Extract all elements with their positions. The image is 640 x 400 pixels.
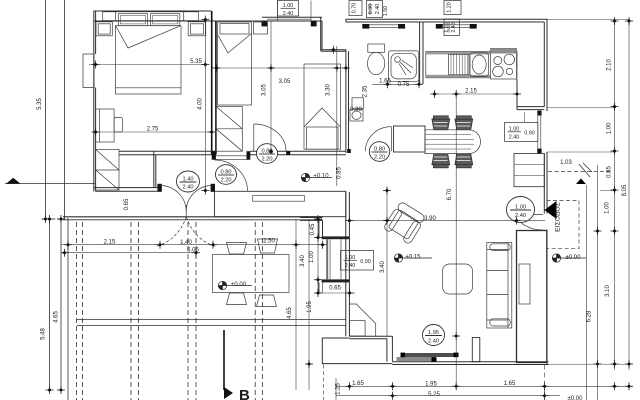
french door swing projection dashed (156, 217, 186, 247)
east kitchen window glazing (537, 113, 539, 150)
french door arc right (186, 186, 212, 212)
washbasin (350, 110, 363, 122)
terrace table (213, 255, 290, 293)
svg-text:1.03: 1.03 (560, 160, 572, 166)
bed1 body (115, 26, 181, 94)
svg-text:±0.15: ±0.15 (406, 254, 422, 260)
sliding door right jamb column (472, 338, 480, 362)
svg-text:3.10: 3.10 (605, 285, 611, 297)
svg-text:5.48: 5.48 (41, 328, 47, 340)
svg-text:0.45: 0.45 (310, 223, 316, 235)
svg-text:6.70: 6.70 (447, 188, 453, 200)
svg-text:2.50: 2.50 (263, 239, 275, 245)
svg-text:1.00: 1.00 (515, 205, 526, 211)
dim h kitchen 2.15 (435, 93, 518, 95)
svg-text:2.40: 2.40 (428, 339, 439, 345)
svg-text:3.90: 3.90 (424, 216, 436, 222)
svg-text:1.65: 1.65 (379, 79, 391, 85)
bed2R fold (304, 108, 341, 127)
shower tray (389, 51, 419, 81)
dim v 1.25 (335, 378, 337, 400)
west wing south wall (french door wall) (94, 187, 158, 189)
window bottom jamb wall stub (322, 279, 350, 282)
fireplace angled wall (350, 304, 376, 336)
north window jambs bathroom (362, 24, 369, 29)
svg-text:0.70: 0.70 (352, 3, 358, 14)
svg-text:1.65: 1.65 (504, 381, 516, 387)
toilet tank (368, 44, 385, 52)
bed2 mid nightstand (254, 22, 268, 34)
svg-text:8.05: 8.05 (622, 184, 628, 196)
wall below west window (318, 282, 320, 293)
level marker ±0.15 (394, 254, 432, 262)
french door center post (185, 205, 187, 217)
dim v 4.00 (204, 20, 206, 193)
boxed label 1.20 kitchen rot (444, 1, 461, 15)
wardrobe bedroom1 hatched (96, 150, 119, 191)
dining sideboard rect (394, 126, 426, 152)
svg-text:2.40: 2.40 (182, 185, 193, 191)
hall west wall piece over window (300, 217, 323, 219)
level marker ±0.00 entrance (552, 254, 586, 262)
bed2R pillow (307, 127, 339, 149)
dim h 3.90 (349, 220, 545, 222)
boundary line left (64, 0, 66, 219)
svg-text:0.90: 0.90 (368, 4, 374, 15)
sofa armrest bottom (490, 319, 511, 326)
desk chair (114, 118, 122, 133)
dish drainer hatch (449, 54, 470, 74)
desk bedroom1 (96, 109, 115, 142)
svg-text:2.75: 2.75 (147, 127, 159, 133)
boxed label west window 1.00/2.40 0.90 (341, 251, 374, 271)
east kitchen window jambs (537, 111, 541, 116)
wall bedroom1/bedroom2 double (211, 11, 213, 155)
svg-text:1.00: 1.00 (605, 202, 611, 214)
svg-text:4.65: 4.65 (287, 307, 293, 319)
armchair rotated (383, 201, 427, 245)
svg-text:0.90: 0.90 (524, 130, 535, 136)
entrance walk dashes (548, 171, 610, 173)
extension line bottom right (549, 363, 631, 365)
svg-text:1.25: 1.25 (336, 383, 342, 395)
bedroom1 west window box (83, 54, 94, 88)
dim h bottom 5.25 (336, 395, 560, 397)
extension line window top (547, 107, 616, 109)
living west wall (345, 192, 347, 336)
fireplace square (350, 321, 366, 337)
dim v 6.28 (585, 185, 587, 400)
svg-text:2.40: 2.40 (283, 11, 294, 17)
pergola dashed pair 2 (130, 222, 132, 400)
svg-text:B: B (239, 387, 250, 400)
svg-text:5.25: 5.25 (428, 392, 440, 398)
dim v 0.45 1.00 (317, 219, 319, 293)
svg-text:1.00: 1.00 (444, 22, 450, 32)
kitchen counter outline (426, 51, 517, 77)
extension line window bottom (547, 151, 616, 153)
bathroom door leaf+arc (390, 127, 392, 152)
terrace chairs (227, 243, 247, 255)
svg-text:5.35: 5.35 (37, 98, 43, 110)
svg-text:1.95: 1.95 (425, 382, 437, 388)
french door jambs (157, 184, 161, 192)
dim h 0.65 hall (318, 292, 355, 294)
ticks left col (42, 215, 50, 223)
shower spray lines (400, 62, 411, 73)
pergola dashed pair 1 (76, 222, 78, 400)
svg-text:0.90: 0.90 (360, 259, 371, 265)
extension line top right (547, 19, 630, 21)
extension line top bedroom2 window (310, 1, 312, 22)
bath+kitchen north wall (346, 18, 547, 20)
bed1 fold (116, 26, 181, 48)
dining chairs hatched (432, 116, 473, 168)
terrace west edge (67, 218, 69, 400)
svg-text:2.40: 2.40 (451, 22, 457, 32)
dim h bedroom1 5.35 (89, 64, 205, 66)
dim v bedroom2 mid (270, 21, 272, 151)
dim v right col 1 (614, 19, 616, 370)
dashed sw step edge (323, 365, 325, 400)
bed2R body (304, 64, 341, 149)
coffee table (443, 264, 473, 294)
boxed label 1.00/2.40 kitchen rot (444, 19, 460, 36)
svg-text:3.05: 3.05 (262, 84, 268, 96)
svg-text:4.00: 4.00 (198, 98, 204, 110)
nightstand east (188, 22, 206, 36)
svg-text:0.85: 0.85 (337, 167, 343, 179)
bedroom1 door arc (215, 160, 248, 191)
svg-text:3.05: 3.05 (279, 79, 291, 85)
svg-text:2.35: 2.35 (363, 85, 369, 97)
svg-text:±0.00: ±0.00 (568, 396, 584, 400)
svg-text:3.40: 3.40 (380, 261, 386, 273)
svg-text:2.15: 2.15 (465, 89, 477, 95)
bathroom north window glazing (369, 24, 398, 26)
dim h terrace 2.15 1.40 2.50 (61, 244, 323, 246)
svg-text:0.80: 0.80 (220, 170, 231, 176)
svg-text:2.10: 2.10 (607, 59, 613, 71)
window top jamb wall stub (322, 236, 350, 239)
entrance canopy dashed (547, 201, 580, 249)
pergola dashed pair 3 (187, 222, 189, 400)
dim v 3.40 right (386, 188, 388, 336)
bed2L body (218, 22, 252, 105)
bedroom1 north wall (94, 10, 212, 12)
dim v 6.70 (455, 94, 457, 386)
svg-text:1.50: 1.50 (383, 6, 389, 17)
svg-text:1.40: 1.40 (182, 177, 193, 183)
washbasin shelf small (352, 98, 364, 109)
bedroom2 door leaf+arc (253, 124, 255, 151)
boxed label 0.70 bath rot (349, 1, 362, 16)
svg-text:1.00: 1.00 (345, 255, 356, 261)
svg-text:4.65: 4.65 (54, 311, 60, 323)
sofa armrest top (490, 244, 511, 251)
hall band inner shelf (253, 196, 305, 202)
dim h bottom 1.65 1.95 1.65 (336, 385, 629, 387)
entrance arrow triangle (545, 201, 557, 219)
svg-text:1.65: 1.65 (352, 381, 364, 387)
notch step wall (320, 17, 322, 51)
svg-text:1.00: 1.00 (283, 3, 294, 9)
dim v right col 2 (628, 19, 630, 370)
svg-text:6.28: 6.28 (587, 310, 593, 322)
svg-text:1.40: 1.40 (180, 240, 192, 246)
dim v 3.40 left (308, 219, 310, 390)
sofa backrest (507, 243, 509, 329)
datum line west with arrow (5, 183, 95, 185)
sofa body (487, 243, 512, 329)
wardrobe bedroom2 hatched (216, 107, 242, 152)
svg-text:2.40: 2.40 (345, 263, 356, 269)
svg-text:3.30: 3.30 (326, 84, 332, 96)
living east wall band / shelf unit (517, 231, 547, 363)
bedroom1 L corner wall (155, 155, 157, 188)
kitchen sink (470, 53, 489, 77)
shower drain (395, 57, 401, 63)
bedroom1 door threshold (215, 155, 249, 157)
svg-text:ΕΙΣΟΔΟΣ: ΕΙΣΟΔΟΣ (555, 202, 562, 232)
east wall between window and entrance (546, 152, 548, 214)
dim line left 5.35/5.48 (45, 0, 47, 219)
svg-text:+0.00: +0.00 (231, 282, 247, 288)
hall west window (326, 239, 328, 279)
level marker +0.10 (301, 173, 332, 181)
dim h bedroom2 3.05 (217, 67, 346, 69)
bedroom1 west wall (93, 11, 95, 192)
dim h terrace 6.06 (61, 252, 196, 254)
tv in niche (519, 264, 530, 304)
svg-text:0.75: 0.75 (398, 82, 410, 88)
toilet bowl (368, 52, 385, 74)
hall cupboard by entrance (514, 154, 544, 187)
svg-text:0.65: 0.65 (124, 198, 130, 210)
bedroom south wall (119, 150, 216, 152)
terrace north wall line (63, 216, 323, 218)
window inner sill line (340, 239, 342, 279)
boxed label 0.90/2.40 1.50 bath rot (367, 1, 383, 18)
boxed label east window 1.00/2.40 0.90 (505, 122, 538, 141)
dim h bath 1.65 0.75 (372, 83, 420, 85)
svg-text:6.06: 6.06 (187, 248, 199, 254)
counter top gray band (426, 51, 517, 54)
jambs black bedroom south doors (212, 151, 216, 160)
bedroom2 north window (267, 18, 311, 20)
svg-text:0.80: 0.80 (374, 147, 385, 153)
svg-text:+0.10: +0.10 (313, 173, 329, 179)
bed2L fold (218, 34, 252, 54)
svg-text:2.20: 2.20 (374, 155, 385, 161)
bath/kitchen separating wall (419, 22, 421, 84)
dim line left 5.48 lower (49, 219, 51, 391)
dim h desk 2.75 (96, 131, 212, 133)
svg-text:2.40: 2.40 (509, 135, 520, 141)
terrace south step double line (77, 319, 346, 321)
living south wall (392, 361, 548, 363)
svg-text:2.15: 2.15 (104, 239, 116, 245)
bathroom west wall (345, 50, 347, 153)
french door arc left (160, 186, 186, 212)
svg-text:3.40: 3.40 (300, 255, 306, 267)
sliding door panels (403, 353, 458, 357)
dim line left 4.65 (60, 218, 62, 391)
boxed label bedroom2 window (278, 1, 299, 17)
pergola dashed pair 4 (254, 222, 256, 400)
section B line (223, 330, 225, 390)
svg-text:5.35: 5.35 (190, 59, 202, 65)
svg-text:2.40: 2.40 (515, 213, 526, 219)
bed2L pillow (220, 24, 249, 35)
bed1 pillows (118, 14, 147, 26)
entrance door leaf+arc (518, 214, 544, 216)
dim v bedroom2 right (336, 46, 338, 186)
svg-text:1.95: 1.95 (307, 301, 313, 313)
label circle bedroom1 door (177, 142, 535, 346)
sw patio step (322, 338, 392, 364)
svg-text:0.80: 0.80 (261, 149, 272, 155)
svg-text:1.00: 1.00 (607, 122, 613, 134)
north window jambs kitchen (436, 24, 443, 29)
level marker +0.00 terrace (218, 281, 252, 289)
svg-text:0.65: 0.65 (329, 286, 341, 292)
dim v right col inner (597, 165, 599, 400)
svg-text:2.20: 2.20 (220, 178, 231, 184)
dining table (425, 130, 481, 154)
svg-text:2.40: 2.40 (375, 4, 381, 15)
svg-text:2.20: 2.20 (261, 157, 272, 163)
nightstand west (96, 22, 112, 36)
counter front gray band (426, 75, 517, 78)
kitchen north window glazing (443, 24, 470, 26)
svg-text:1.00: 1.00 (509, 127, 520, 133)
svg-text:0.85: 0.85 (607, 166, 613, 178)
east wall below entrance (546, 230, 548, 365)
svg-text:0.30: 0.30 (350, 107, 362, 113)
extension line entrance top (600, 190, 616, 192)
bed1 headboard shelf (103, 12, 199, 21)
north window jambs bedroom2 (262, 21, 268, 26)
hall south band (215, 191, 346, 216)
svg-text:1.95: 1.95 (428, 330, 439, 336)
bedroom2 north wall (216, 20, 322, 22)
svg-text:1.00: 1.00 (309, 251, 315, 263)
stove (491, 49, 517, 80)
dim v terrace right (295, 219, 297, 390)
building east wall top (546, 19, 548, 111)
svg-text:1.20: 1.20 (447, 2, 453, 13)
kitchen east niche step (516, 79, 518, 110)
living sw corner step (349, 335, 392, 337)
sofa cushions (487, 249, 508, 251)
dashed property line bottom right (544, 365, 546, 400)
dashed stub at terrace top left (42, 218, 64, 220)
